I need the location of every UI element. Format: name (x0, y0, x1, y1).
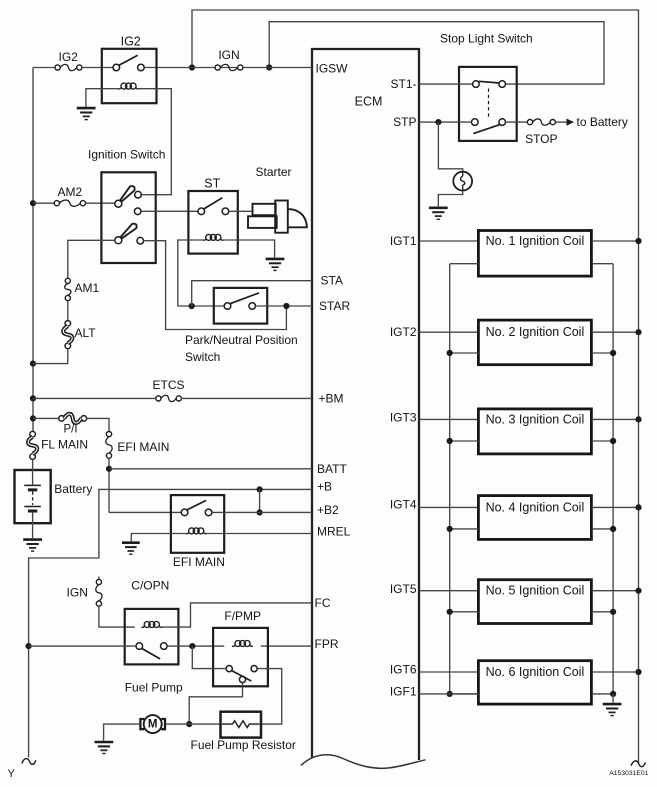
svg-text:+B: +B (317, 480, 332, 494)
label No. 5 Ignition Coil (486, 584, 585, 598)
wire: IG2 relay to ECM IGSW pin (144, 67, 312, 69)
svg-text:IG2: IG2 (59, 50, 79, 64)
wire: coil 1 IGF tap to left inner bus (450, 263, 479, 265)
wire: coil 5 IGF tap to left inner bus (450, 611, 479, 613)
junction dot IGF bus (447, 691, 453, 697)
wire: EFI MAIN relay to ECM +B2 pin (212, 511, 312, 513)
junction dot fuel pump relay node (189, 643, 195, 649)
wire: IGF bus to ECM IGF1 pin (419, 693, 478, 695)
label Stop Light Switch (440, 32, 533, 46)
svg-text:AM2: AM2 (58, 185, 83, 199)
relay IG2 switch contacts (113, 55, 144, 70)
label Battery (54, 482, 92, 496)
junction dot +B link top (257, 486, 263, 492)
svg-text:Switch: Switch (185, 350, 220, 364)
svg-text:+B2: +B2 (317, 503, 339, 517)
svg-text:No. 2 Ignition Coil: No. 2 Ignition Coil (486, 325, 585, 339)
junction dot ignition bus IGT4 (635, 504, 641, 510)
ECM pin ST1- (390, 77, 416, 91)
wire: coil 5 ground tap to right inner bus (591, 611, 613, 613)
wire: ignition switch to ST relay contact (141, 210, 198, 212)
svg-text:P/I: P/I (63, 424, 77, 436)
wire: coil 2 to right ignition bus (591, 331, 638, 333)
ECM pin IGT6 (390, 663, 417, 677)
wire: STA node to ECM STA pin (192, 281, 312, 306)
wire: ALT to left bus (33, 349, 68, 364)
ignition switch ST feed contact (134, 208, 141, 215)
park/neutral position switch box S2 (214, 288, 267, 324)
label A153031E01 (609, 770, 649, 777)
wire: AM1 to ALT (67, 301, 69, 321)
wire: right inner bus to ground (612, 694, 614, 703)
wire: stop lamp to ground (438, 191, 462, 207)
stop light switch mechanical link (dashed) (488, 89, 490, 118)
fuel pump resistor element (222, 721, 260, 728)
svg-text:No. 5 Ignition Coil: No. 5 Ignition Coil (486, 584, 585, 598)
wire: coil 3 IGF tap to left inner bus (450, 440, 479, 442)
fuse IGN (main) (215, 64, 243, 70)
junction dot P/I tap (30, 415, 36, 421)
ignition switch upper wedge rotor (120, 186, 134, 201)
wire: +B2 row to EFI MAIN relay (109, 511, 181, 513)
ECM pin BATT (317, 462, 347, 476)
svg-text:IG2: IG2 (121, 35, 141, 49)
label IG2 (fuse) (59, 50, 79, 64)
ECM pin STA (321, 274, 343, 288)
ignition coil box: No. 3 Ignition Coil (478, 409, 591, 454)
label ETCS (152, 378, 184, 392)
svg-text:MREL: MREL (317, 525, 351, 539)
stop light switch lower contacts (STP) (472, 119, 506, 134)
wire: +B to +B2 link (259, 489, 261, 512)
svg-text:IGN: IGN (218, 48, 239, 62)
ignition coil box: No. 4 Ignition Coil (478, 496, 591, 540)
junction dot AM2 tap (30, 200, 36, 206)
ECM pin +B (317, 480, 332, 494)
relay EFI MAIN coil (186, 528, 207, 534)
wire: park/neutral switch to ECM STAR pin (256, 305, 312, 307)
wire: EFI MAIN coil to ECM MREL pin (206, 533, 312, 535)
label No. 3 Ignition Coil (486, 412, 585, 426)
svg-text:STP: STP (393, 115, 416, 129)
ignition switch IG2 contact (135, 191, 142, 198)
svg-text:FC: FC (315, 596, 331, 610)
junction dot ignition bus IGT3 (635, 416, 641, 422)
label C/OPN (131, 579, 169, 593)
wire: left bus to P/I link (33, 417, 59, 419)
fuse AM2 (33, 200, 115, 206)
arrow to Battery (555, 119, 574, 126)
label No. 1 Ignition Coil (486, 234, 585, 248)
wire: coil 1 to right ignition bus (591, 240, 638, 242)
label AM1 (75, 281, 100, 295)
wire: ECM IGT1 to coil (419, 240, 478, 242)
svg-text:STA: STA (321, 274, 343, 288)
svg-text:ECM: ECM (355, 95, 383, 109)
park/neutral switch contacts (224, 293, 259, 309)
label to Battery (577, 115, 628, 129)
ECM pin FPR (315, 637, 339, 651)
svg-text:C/OPN: C/OPN (131, 579, 169, 593)
wire: coil 5 to right ignition bus (591, 590, 638, 592)
svg-text:Starter: Starter (256, 165, 292, 179)
svg-text:Park/Neutral Position: Park/Neutral Position (185, 333, 298, 347)
wire: ECM +B to lower-left feed bus (29, 489, 312, 757)
svg-text:IGT1: IGT1 (390, 234, 417, 248)
svg-text:STAR: STAR (319, 299, 350, 313)
label No. 6 Ignition Coil (486, 665, 585, 679)
junction dot at IGN fuse input (189, 64, 195, 70)
label IG2 (relay) (121, 35, 141, 49)
fuel pump resistor R1 box (221, 712, 262, 738)
ECM module box U1 (open bottom, torn edge) (301, 49, 426, 768)
ECM pin IGT2 (390, 325, 417, 339)
wire: EFI MAIN fuse to +B2 row corner (108, 458, 110, 512)
wire: feed bus to C/OPN switch (29, 645, 136, 647)
svg-text:IGT2: IGT2 (390, 325, 417, 339)
relay EFI MAIN switch contacts (181, 500, 212, 515)
junction dot IGF bus (447, 438, 453, 444)
fuse EFI MAIN (106, 432, 112, 459)
relay C/OPN coil (141, 622, 162, 628)
wire: ECM STP to stop light switch (419, 121, 472, 123)
ground (IG2 relay coil) (77, 108, 96, 120)
svg-text:No. 6 Ignition Coil: No. 6 Ignition Coil (486, 665, 585, 679)
wire: AM1 branch from ignition switch (68, 240, 115, 278)
wire: STP tap to stop lamp (438, 122, 462, 172)
ground (fuel pump motor) (95, 742, 114, 754)
wire: coil ground bus (right inner) (612, 264, 614, 694)
junction dot fuel pump motor node (186, 721, 192, 727)
svg-text:AM1: AM1 (75, 281, 100, 295)
svg-text:EFI MAIN: EFI MAIN (173, 555, 225, 569)
svg-text:Fuel Pump: Fuel Pump (125, 680, 183, 694)
relay F/PMP box (213, 628, 268, 686)
svg-text:BATT: BATT (317, 462, 347, 476)
starter motor M1 (solenoid + motor) (248, 201, 307, 233)
wire: coil 2 IGF tap to left inner bus (450, 352, 479, 354)
wire: F/PMP NC contact to fuel pump resistor (257, 669, 282, 725)
stop light switch box S3 (459, 67, 517, 141)
wire: ETCS fuse to ECM +BM pin (181, 397, 312, 399)
battery B1 box (15, 470, 51, 523)
wire: ECM IGT3 to coil (419, 418, 478, 420)
fuse ETCS (156, 395, 182, 401)
label Ignition Switch (88, 148, 165, 162)
relay C/OPN switch contacts (136, 643, 167, 659)
ECM pin IGSW (316, 61, 349, 75)
fuse IGN (fuel pump feed) (96, 577, 102, 607)
relay ST switch contacts (198, 198, 229, 215)
label AM2 (58, 185, 83, 199)
ground (stop lamp) (429, 208, 448, 220)
ground (ST relay coil) (266, 259, 285, 271)
ignition switch AM1 pivot contact (115, 237, 122, 244)
ignition switch ST contact (137, 237, 144, 244)
label Fuel Pump (125, 680, 183, 694)
svg-text:FPR: FPR (315, 637, 339, 651)
label Park/Neutral Position Switch (185, 333, 298, 364)
label F/PMP (224, 609, 261, 623)
label Fuel Pump Resistor (191, 738, 296, 752)
label STOP (525, 132, 557, 146)
wire: coil 6 IGF tap to left inner bus (450, 693, 479, 695)
fuse IG2 (55, 64, 82, 70)
wire: ECM ST1- to stop light switch (419, 83, 473, 85)
junction dot coil ground bus (610, 609, 616, 615)
ignition switch box S1 (101, 172, 155, 263)
wire: ECM IGT2 to coil (419, 331, 478, 333)
wire: EFI MAIN coil to ground (131, 534, 186, 542)
ECM pin IGT3 (390, 410, 417, 424)
wire: ST coil to ground (223, 240, 274, 258)
svg-text:to Battery: to Battery (577, 115, 628, 129)
junction dot ETCS tap (30, 395, 36, 401)
ECM label (355, 95, 383, 109)
junction dot ignition bus IGT6 (635, 669, 641, 675)
wire: IG2 coil to ground (86, 89, 119, 107)
relay EFI MAIN box (171, 495, 224, 553)
wire: coil 3 ground tap to right inner bus (591, 440, 613, 442)
svg-text:ALT: ALT (75, 326, 97, 340)
svg-text:Battery: Battery (54, 482, 92, 496)
ECM pin IGT4 (390, 497, 417, 511)
junction dot at IGSW branch (266, 64, 272, 70)
wire: left bus to ETCS fuse (33, 397, 156, 399)
ECM pin IGT1 (390, 234, 417, 248)
wire: stop light switch to STOP fuse (505, 121, 527, 123)
label ALT (75, 326, 97, 340)
junction dot BATT tap (106, 466, 112, 472)
wire: coil 4 to right ignition bus (591, 506, 638, 508)
junction dot +B2 link bottom (257, 509, 263, 515)
junction dot ALT return (30, 361, 36, 367)
wire: IG2 fuse to IG2 relay (82, 67, 113, 69)
svg-text:Y: Y (8, 768, 16, 780)
wire: ST coil to STA/park-neutral node (178, 240, 224, 306)
fuel pump motor M2 (140, 715, 165, 733)
junction dot fuel pump feed (26, 643, 32, 649)
wire: ECM IGT5 to coil (419, 590, 478, 592)
wire: IGN fuse to C/OPN coil (99, 606, 135, 627)
svg-text:STOP: STOP (525, 132, 557, 146)
svg-text:ST1-: ST1- (390, 77, 416, 91)
label Starter (256, 165, 292, 179)
junction dot ignition bus IGT1 (635, 238, 641, 244)
svg-text:IGSW: IGSW (316, 61, 349, 75)
fuse AM1 (65, 278, 71, 300)
svg-text:IGT3: IGT3 (390, 410, 417, 424)
junction dot STAR branch (283, 303, 289, 309)
wire: coil 1 ground tap to right inner bus (591, 263, 613, 265)
wire: IGSW node up and across top to right ignition bus (192, 10, 639, 764)
relay IG2 box (102, 49, 157, 103)
ECM pin FC (315, 596, 331, 610)
wire: IGSW node to stop light switch (upper feed) (269, 22, 604, 84)
ECM pin +B2 (317, 503, 339, 517)
wire: coil 6 to right ignition bus (591, 671, 638, 673)
junction dot IGF bus (447, 609, 453, 615)
wire: BATT row to ECM BATT pin (109, 468, 312, 470)
label P/I (63, 424, 77, 436)
svg-text:IGN: IGN (67, 586, 88, 600)
ignition coil box: No. 1 Ignition Coil (478, 231, 591, 277)
label FL MAIN (41, 437, 88, 451)
label IGN (fuel pump fuse) (67, 586, 88, 600)
relay IG2 coil (118, 83, 139, 89)
label No. 2 Ignition Coil (486, 325, 585, 339)
fusible link ALT (63, 321, 72, 349)
label No. 4 Ignition Coil (486, 500, 585, 514)
ground (EFI MAIN relay coil) (122, 543, 140, 555)
junction dot IGF bus (447, 350, 453, 356)
fuse STOP (527, 119, 555, 125)
svg-text:IGF1: IGF1 (390, 685, 417, 699)
junction dot ignition bus IGT2 (635, 329, 641, 335)
label Y (8, 768, 16, 780)
relay ST box (188, 191, 237, 254)
junction dot STP lamp tap (435, 119, 441, 125)
ignition coil box: No. 5 Ignition Coil (478, 580, 591, 624)
svg-text:FL MAIN: FL MAIN (41, 437, 88, 451)
junction dot coil ground bus (610, 350, 616, 356)
battery cell plates (24, 459, 41, 538)
wire: P/I link to EFI MAIN fuse (87, 418, 110, 431)
ignition switch lower wedge rotor (121, 224, 137, 239)
junction dot STA node (189, 303, 195, 309)
svg-text:EFI MAIN: EFI MAIN (117, 440, 169, 454)
svg-text:IGT5: IGT5 (390, 582, 417, 596)
relay ST coil (203, 234, 224, 240)
wire: IG2 coil to ignition switch IG2 contact (139, 89, 172, 195)
wire: coil 4 ground tap to right inner bus (591, 528, 613, 530)
ignition switch AM2 pivot contact (115, 200, 122, 207)
svg-text:No. 3 Ignition Coil: No. 3 Ignition Coil (486, 412, 585, 426)
svg-text:ST: ST (204, 176, 220, 190)
wire: relay node to F/PMP common contact (192, 646, 226, 669)
label IGN (fuse) (218, 48, 239, 62)
fusible link P/I (59, 414, 87, 423)
svg-text:+BM: +BM (319, 391, 344, 405)
wire: ignition switch ST contact to STAR node (144, 241, 287, 330)
svg-text:Stop Light Switch: Stop Light Switch (440, 32, 533, 46)
svg-text:Ignition Switch: Ignition Switch (88, 148, 165, 162)
svg-text:No. 4 Ignition Coil: No. 4 Ignition Coil (486, 500, 585, 514)
svg-text:A153031E01: A153031E01 (609, 770, 649, 777)
svg-text:F/PMP: F/PMP (224, 609, 261, 623)
wire: IGF signal bus (left inner) (449, 264, 451, 694)
wire: motor to node / motor to ground (104, 724, 221, 741)
junction dot coil ground bus (610, 438, 616, 444)
svg-text:IGT6: IGT6 (390, 663, 417, 677)
ECM pin +BM (319, 391, 344, 405)
continuation mark (bus Y) (22, 759, 36, 765)
ECM pin STAR (319, 299, 350, 313)
label EFI MAIN (relay) (173, 555, 225, 569)
junction dot coil ground bus (610, 526, 616, 532)
wire: coil 3 to right ignition bus (591, 418, 638, 420)
wire: coil 4 IGF tap to left inner bus (450, 528, 479, 530)
label EFI MAIN (fuse) (117, 440, 169, 454)
wire: left bus to IG2 fuse (33, 67, 55, 69)
wire: C/OPN switch to F/PMP coil / ECM FPR pin (167, 645, 312, 647)
svg-text:IGT4: IGT4 (390, 497, 417, 511)
label ST (204, 176, 220, 190)
fusible link FL MAIN (28, 431, 37, 459)
svg-text:No. 1 Ignition Coil: No. 1 Ignition Coil (486, 234, 585, 248)
relay F/PMP switch contacts (226, 666, 257, 683)
ignition coil box: No. 6 Ignition Coil (478, 661, 591, 704)
ECM pin STP (393, 115, 416, 129)
stop light switch upper contacts (ST1-) (473, 81, 506, 88)
wire: left supply bus (battery positive) (32, 68, 34, 432)
svg-text:Fuel Pump Resistor: Fuel Pump Resistor (191, 738, 296, 752)
wire: coil 6 ground tap to right inner bus (591, 693, 613, 695)
stop lamp L1 (453, 172, 472, 191)
ground (battery negative) (23, 540, 42, 552)
ignition coil box: No. 2 Ignition Coil (478, 320, 591, 365)
ECM pin IGF1 (390, 685, 417, 699)
junction dot coil ground bus (610, 691, 616, 697)
junction dot IGF bus (447, 526, 453, 532)
svg-text:ETCS: ETCS (152, 378, 184, 392)
relay F/PMP coil (232, 641, 253, 647)
svg-text:M: M (148, 718, 158, 730)
continuation mark (ignition bus) (631, 761, 646, 767)
wire: ECM IGT4 to coil (419, 506, 478, 508)
wire: C/OPN coil to ECM FC pin (162, 603, 312, 627)
junction dot ignition bus IGT5 (635, 588, 641, 594)
ground (ignition coil bus) (603, 704, 622, 716)
wire: coil 2 ground tap to right inner bus (591, 352, 613, 354)
wire: ECM IGT6 to coil (419, 671, 478, 673)
ECM pin MREL (317, 525, 351, 539)
ECM pin IGT5 (390, 582, 417, 596)
relay C/OPN box (125, 609, 179, 665)
wire: F/PMP NO contact to fuel pump motor (189, 683, 242, 725)
wire: ST relay to starter (229, 210, 253, 212)
